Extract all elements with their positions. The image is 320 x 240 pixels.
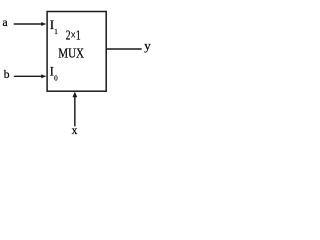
input b arrowhead: [41, 74, 46, 78]
input b wire: [14, 75, 42, 77]
svg-text:y: y: [144, 38, 151, 53]
label 2x1: [66, 27, 81, 43]
label MUX: [58, 45, 84, 61]
input a wire: [14, 23, 42, 25]
svg-text:2×1: 2×1: [66, 27, 81, 43]
svg-text:x: x: [72, 125, 78, 137]
output y wire: [107, 48, 142, 50]
mux box U1: [47, 12, 106, 92]
svg-text:MUX: MUX: [58, 45, 84, 61]
input a arrowhead: [41, 22, 46, 26]
pin label I0: [50, 64, 58, 82]
svg-text:1: 1: [54, 28, 58, 36]
svg-text:b: b: [4, 69, 10, 81]
select input x arrowhead: [72, 92, 77, 98]
svg-text:a: a: [3, 17, 8, 29]
select input x wire: [74, 97, 76, 126]
pin label I1: [50, 18, 58, 36]
svg-text:0: 0: [54, 75, 58, 83]
